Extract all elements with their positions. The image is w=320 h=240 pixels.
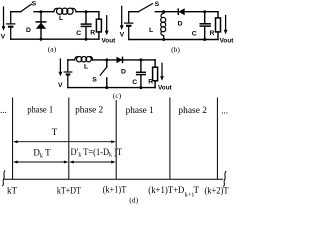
svg-text:V: V [58, 82, 63, 89]
svg-text:phase 1: phase 1 [126, 105, 154, 115]
battery V (c) [64, 60, 73, 88]
Vout arrow (b) [224, 15, 228, 34]
node sw-bottom (c) [105, 86, 108, 89]
wire top rail left (b) [129, 11, 139, 13]
wire bottom rail (b) [129, 39, 218, 41]
node D-C junction (c) [139, 58, 142, 61]
axis time [4, 178, 223, 180]
Vout arrow (a) [105, 16, 109, 36]
svg-text:D: D [26, 27, 31, 34]
svg-text:Vout: Vout [158, 85, 172, 92]
wire top rail right (b) [185, 11, 218, 13]
svg-text:(b): (b) [171, 45, 180, 54]
node L-bottom (b) [162, 38, 165, 41]
diode D3 (c) pointing right [117, 57, 123, 64]
switch S (a) blade [21, 4, 32, 12]
node L-C junction (a) [85, 10, 88, 13]
svg-text:T: T [52, 127, 58, 137]
wire bottom rail (c) [68, 87, 155, 89]
svg-text:C: C [132, 79, 137, 86]
wire top rail mid (b) [155, 11, 178, 13]
node C-bottom (b) [203, 38, 206, 41]
svg-text:(c): (c) [113, 91, 122, 100]
arrow DkT span [13, 161, 68, 164]
wire bottom rail (a) [11, 38, 99, 40]
inductor L2 (b) vertical [161, 12, 166, 40]
source V1 arrow [2, 7, 6, 31]
svg-text:V: V [120, 31, 125, 38]
node L-sw junction (c) [105, 58, 108, 61]
node line (k+2)T [216, 98, 218, 180]
arrow D'kT span [69, 161, 116, 164]
inductor L3 (c) [75, 57, 93, 62]
svg-text:D: D [121, 69, 126, 76]
svg-text:S: S [32, 0, 37, 7]
svg-text:...: ... [0, 105, 7, 115]
node sw-L junction (b) [162, 10, 165, 13]
svg-text:T: T [194, 185, 200, 195]
diode D2 (b) pointing left [178, 8, 184, 15]
svg-text:...: ... [221, 106, 228, 116]
svg-text:L: L [59, 15, 63, 22]
svg-text:Vout: Vout [220, 38, 234, 45]
svg-text:(k+1)T: (k+1)T [103, 185, 127, 195]
node line (k+1)T [115, 100, 117, 179]
node diode-bottom (a) [40, 38, 43, 41]
battery V (b) [124, 12, 134, 40]
svg-text:L: L [84, 63, 88, 70]
svg-text:V: V [1, 34, 6, 41]
svg-text:S: S [155, 1, 160, 8]
wire top rail right (a) [76, 11, 99, 13]
wire top rail mid (a) [34, 11, 54, 13]
svg-text:C: C [76, 30, 81, 37]
resistor R2 (b) [216, 12, 221, 40]
axis break left [2, 170, 5, 186]
svg-text:Vout: Vout [102, 38, 116, 45]
svg-text:S: S [92, 76, 97, 83]
svg-text:(d): (d) [129, 196, 138, 205]
node line kT [12, 98, 14, 180]
node line (k+1)T+Dk+1T [169, 98, 171, 180]
svg-text:L: L [149, 27, 153, 34]
capacitor C1 (a) [81, 12, 92, 40]
diode D1 (a) [36, 12, 47, 40]
svg-text:phase 2: phase 2 [75, 105, 103, 115]
inductor L1 (a) [54, 8, 76, 14]
wire top rail left (a) [11, 11, 21, 13]
svg-text:kT+DT: kT+DT [57, 185, 81, 195]
svg-text:R: R [148, 79, 153, 86]
capacitor C3 (c) [136, 60, 146, 88]
axis break right [223, 171, 226, 187]
Vout arrow (c) [160, 63, 164, 81]
node C-bottom (c) [139, 86, 142, 89]
wire top rail right (c) [93, 59, 155, 61]
svg-text:(k+1)T+D: (k+1)T+D [148, 185, 184, 195]
switch S (b) blade [138, 4, 152, 12]
svg-text:C: C [192, 30, 197, 37]
node line kT+DT [68, 98, 70, 180]
svg-text:phase 1: phase 1 [27, 105, 53, 115]
svg-text:kT: kT [7, 185, 18, 195]
battery V (a) [6, 12, 16, 40]
source V2 arrow [120, 6, 124, 30]
svg-text:(k+2)T: (k+2)T [205, 185, 229, 195]
switch S (c) vertical [100, 60, 107, 88]
capacitor C2 (b) [200, 12, 211, 40]
svg-text:R: R [90, 30, 95, 37]
node sw-d junction (a) [40, 10, 43, 13]
resistor R3 (c) [153, 60, 158, 88]
node cap-bottom (a) [85, 38, 88, 41]
svg-text:(a): (a) [48, 45, 57, 54]
node D-C junction (b) [203, 10, 206, 13]
source V3 arrow [59, 59, 63, 76]
svg-text:D: D [178, 21, 183, 28]
wire top rail left (c) [68, 59, 75, 61]
arrow T span [13, 140, 116, 143]
resistor R1 (a) [96, 12, 101, 40]
svg-text:phase 2: phase 2 [178, 105, 207, 115]
svg-text:R: R [210, 30, 215, 37]
